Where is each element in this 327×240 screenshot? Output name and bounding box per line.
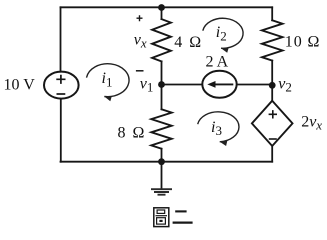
svg-text:10 V: 10 V <box>4 76 36 93</box>
svg-text:4 Ω: 4 Ω <box>174 34 202 51</box>
svg-text:10 Ω: 10 Ω <box>285 34 321 51</box>
svg-text:8 Ω: 8 Ω <box>118 124 146 141</box>
svg-text:2 A: 2 A <box>206 54 229 71</box>
